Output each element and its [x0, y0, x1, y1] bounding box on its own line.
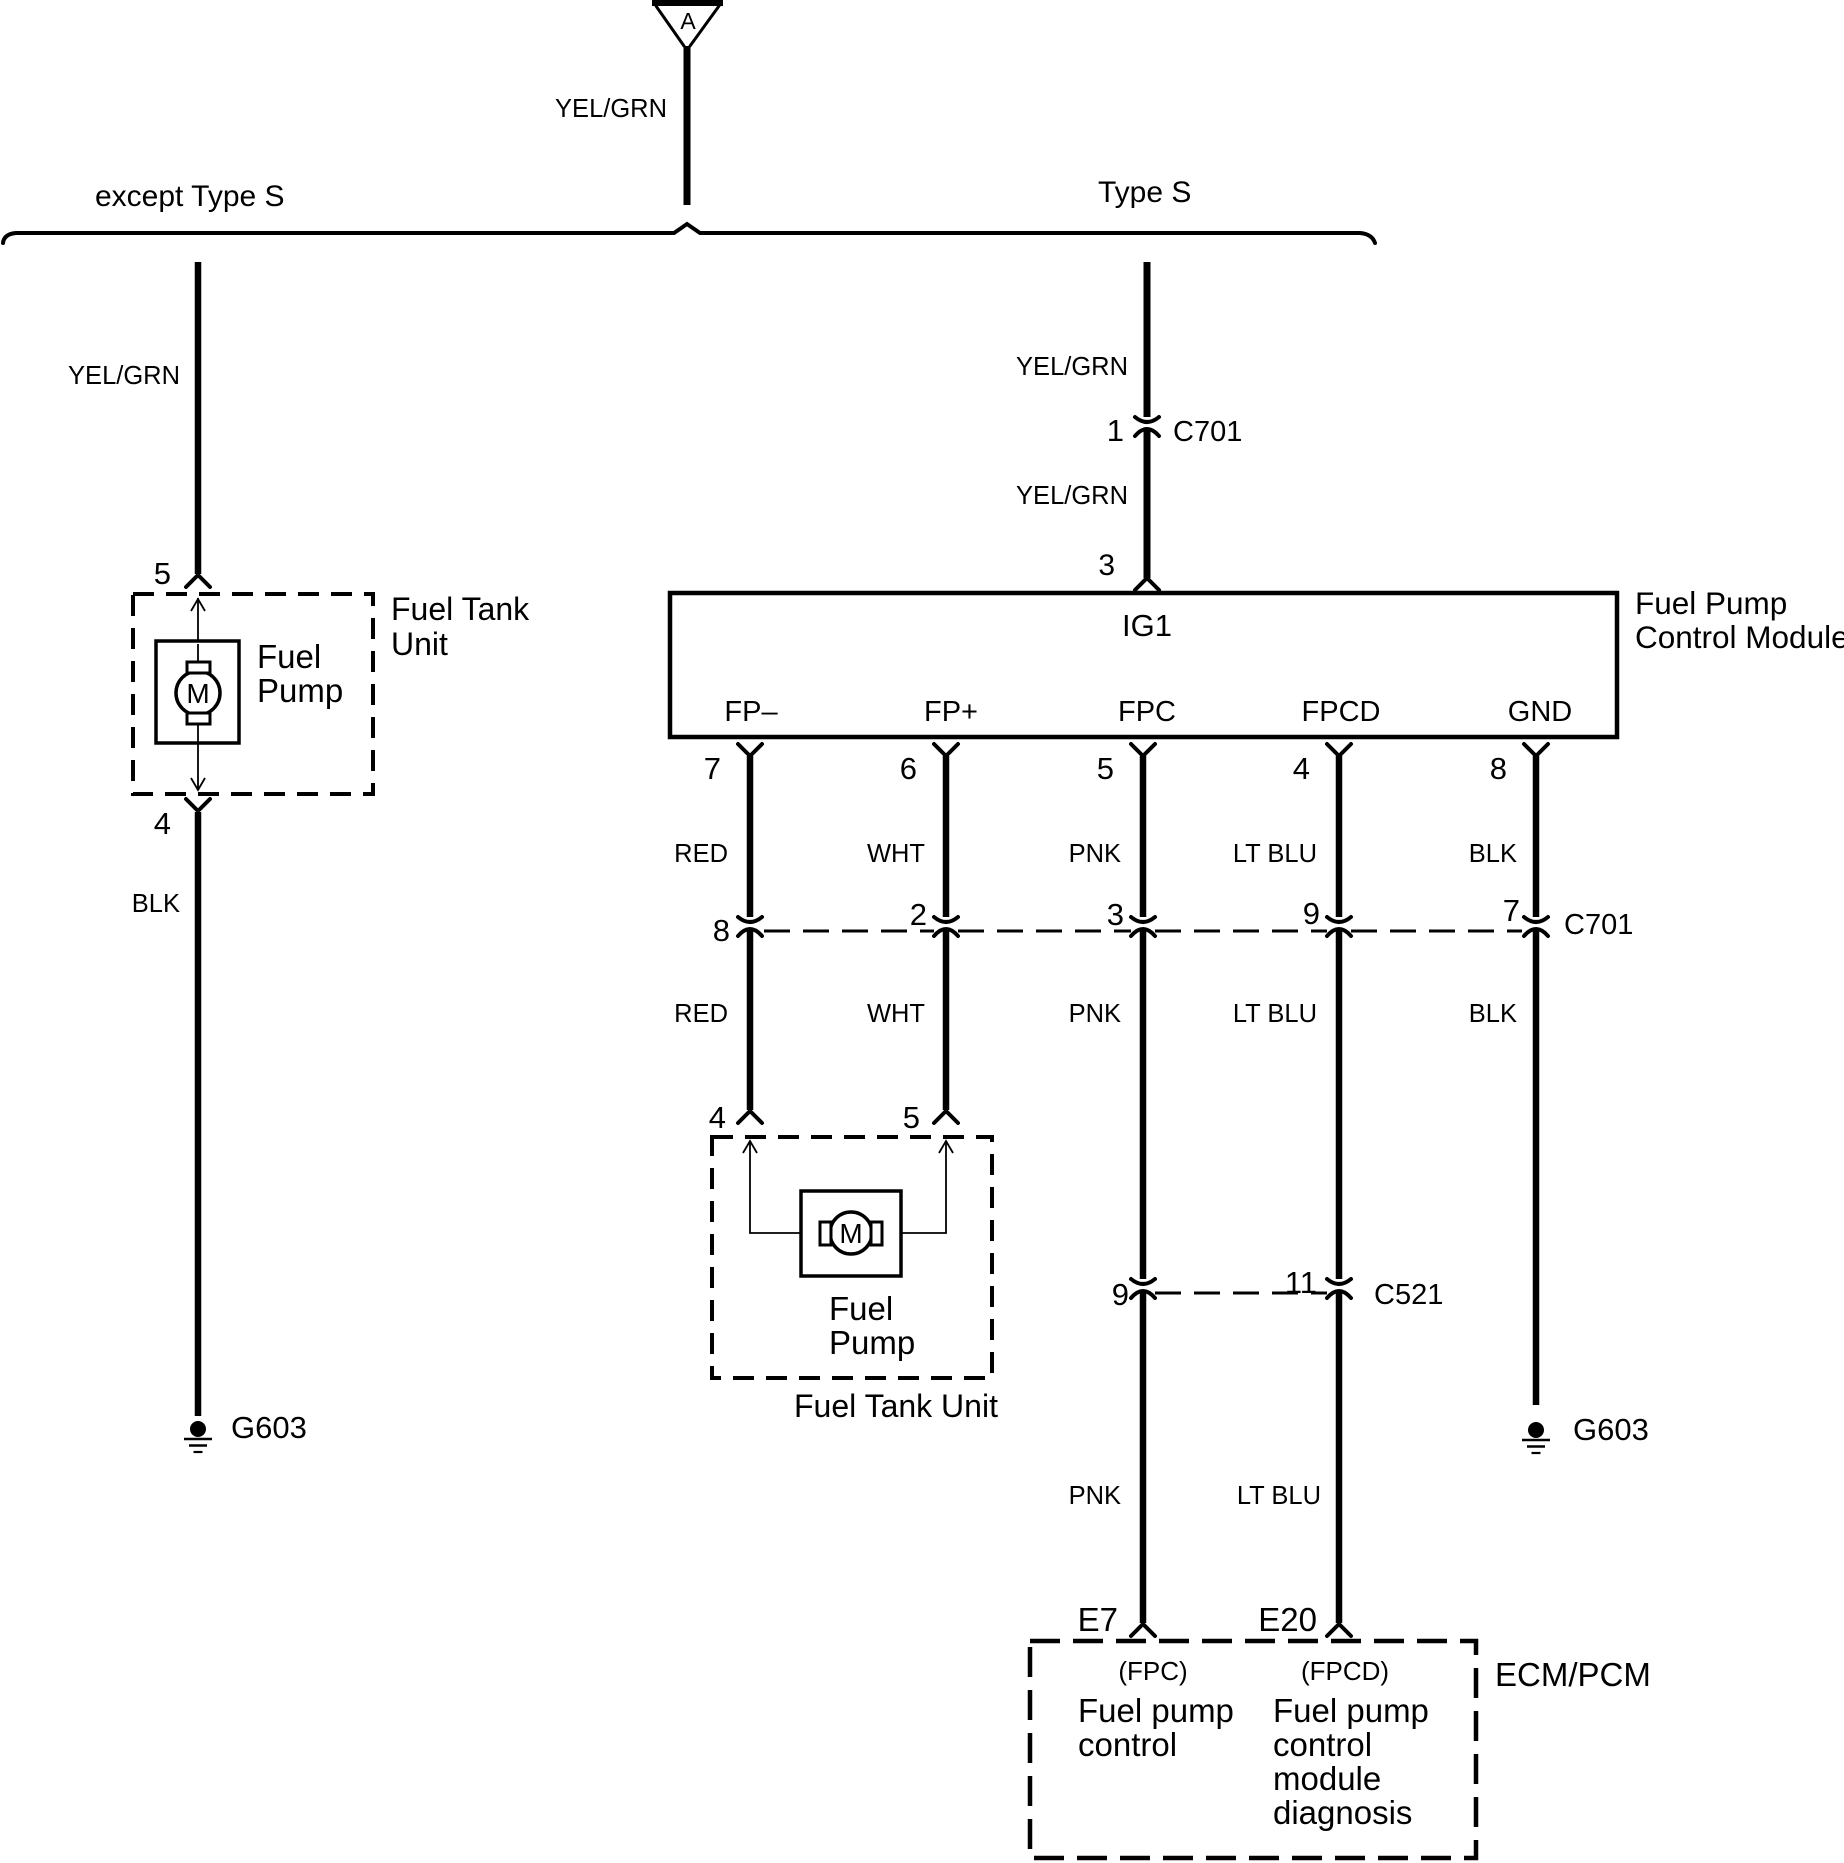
terminal: FPCM pin 3 (IG1): [1135, 579, 1159, 590]
connector A (triangle, page link): [652, 0, 723, 6]
svg-text:G603: G603: [231, 1410, 307, 1445]
svg-text:Pump: Pump: [829, 1324, 915, 1361]
svg-text:5: 5: [1097, 751, 1114, 786]
motor M (left): [176, 671, 220, 715]
svg-text:Unit: Unit: [391, 626, 448, 662]
svg-text:LT BLU: LT BLU: [1233, 1000, 1317, 1028]
svg-text:5: 5: [154, 556, 171, 591]
svg-text:YEL/GRN: YEL/GRN: [555, 95, 667, 123]
brace splitting to except Type S / Type S branches: [3, 224, 1375, 243]
svg-text:E7: E7: [1078, 1601, 1118, 1638]
svg-text:3: 3: [1107, 897, 1124, 932]
svg-text:3: 3: [1098, 549, 1115, 582]
terminal: fuel tank unit pin 4 (male): [186, 799, 210, 810]
svg-text:PNK: PNK: [1069, 1000, 1121, 1028]
connector C701 dashed line: [764, 930, 934, 933]
wire WHT (FP+) lower: [943, 929, 950, 1110]
svg-text:C701: C701: [1564, 909, 1633, 941]
svg-text:Pump: Pump: [257, 672, 343, 709]
terminal: FPCM pin 5 (FPC): [1131, 744, 1155, 755]
svg-text:1: 1: [1107, 413, 1124, 448]
wire PNK (FPC) to ECM: [1140, 1291, 1147, 1623]
svg-text:WHT: WHT: [867, 1000, 925, 1028]
connector C701 pin 2 (FP+): [934, 917, 958, 922]
svg-text:Fuel pump: Fuel pump: [1078, 1692, 1234, 1729]
svg-text:YEL/GRN: YEL/GRN: [1016, 353, 1128, 381]
Fuel Pump Control Module box: [670, 593, 1617, 737]
wire YEL/GRN from A: [684, 46, 691, 205]
svg-text:Fuel Pump: Fuel Pump: [1635, 585, 1787, 621]
terminal: FPCM pin 7 (FP-): [738, 744, 762, 755]
svg-text:7: 7: [1503, 893, 1520, 928]
svg-text:9: 9: [1303, 896, 1320, 931]
svg-text:C701: C701: [1173, 416, 1242, 448]
svg-text:6: 6: [900, 751, 917, 786]
svg-text:Fuel: Fuel: [257, 638, 321, 675]
svg-text:Fuel pump: Fuel pump: [1273, 1692, 1429, 1729]
connector C701 pin 7 (GND): [1524, 917, 1548, 922]
svg-text:FP–: FP–: [724, 696, 778, 728]
wire YEL/GRN (Type S, below C701): [1144, 429, 1151, 578]
internal wires of fuel pump (Type S): [743, 1141, 757, 1153]
wire LT BLU (FPCD) lower: [1336, 929, 1343, 1279]
connector C521 dashed line: [1155, 1292, 1327, 1295]
svg-text:Type S: Type S: [1098, 176, 1191, 209]
fuel pump box (Type S): [801, 1191, 901, 1276]
svg-text:PNK: PNK: [1069, 840, 1121, 868]
wire PNK (FPC) lower: [1140, 929, 1147, 1279]
svg-text:11: 11: [1285, 1265, 1317, 1300]
svg-text:FP+: FP+: [924, 696, 978, 728]
terminal: FPCM pin 4 (FPCD): [1327, 744, 1351, 755]
svg-text:LT BLU: LT BLU: [1237, 1482, 1321, 1510]
svg-text:4: 4: [154, 806, 171, 841]
wire BLK (left, to ground): [195, 812, 202, 1416]
svg-text:GND: GND: [1508, 696, 1572, 728]
wire BLK (GND) lower: [1533, 929, 1540, 1405]
wire YEL/GRN (except Type S): [195, 262, 202, 574]
motor M (Type S): [830, 1212, 872, 1254]
svg-text:RED: RED: [674, 840, 728, 868]
svg-text:(FPC): (FPC): [1118, 1656, 1187, 1686]
connector C701 pin 8 (FP-): [738, 917, 762, 922]
internal wire of fuel pump (left): [197, 598, 199, 666]
ground G603 (left): [190, 1421, 206, 1437]
svg-text:BLK: BLK: [1469, 1000, 1517, 1028]
svg-text:except Type S: except Type S: [95, 180, 285, 213]
svg-text:7: 7: [704, 751, 721, 786]
ECM/PCM dashed box: [1030, 1641, 1476, 1858]
svg-text:diagnosis: diagnosis: [1273, 1794, 1412, 1831]
svg-text:M: M: [839, 1218, 862, 1249]
fuel pump box (left): [156, 641, 239, 743]
terminal: ECM pin E7: [1131, 1625, 1155, 1636]
terminal: FPCM pin 6 (FP+): [934, 744, 958, 755]
svg-text:5: 5: [903, 1100, 920, 1135]
wire WHT (FP+) upper: [943, 756, 950, 917]
connector C701 pin 3 (FPC): [1131, 917, 1155, 922]
svg-text:YEL/GRN: YEL/GRN: [1016, 482, 1128, 510]
connector C521 pin 9 (FPC): [1131, 1279, 1155, 1284]
svg-text:Fuel: Fuel: [829, 1290, 893, 1327]
wire RED (FP-) lower: [747, 929, 754, 1110]
connector C701 pin 1 (inline): [1135, 417, 1159, 422]
svg-text:YEL/GRN: YEL/GRN: [68, 362, 180, 390]
terminal: fuel tank pin 4 (Type S): [738, 1112, 762, 1123]
internal wire inside pump box (left): [197, 644, 199, 742]
svg-text:PNK: PNK: [1069, 1482, 1121, 1510]
svg-text:4: 4: [1293, 751, 1310, 786]
svg-text:LT BLU: LT BLU: [1233, 840, 1317, 868]
ground G603 (right): [1528, 1422, 1544, 1438]
svg-text:8: 8: [1490, 751, 1507, 786]
svg-text:control: control: [1273, 1726, 1372, 1763]
connector C701 pin 9 (FPCD): [1327, 917, 1351, 922]
svg-text:(FPCD): (FPCD): [1301, 1656, 1389, 1686]
wire LT BLU (FPCD) upper: [1336, 756, 1343, 917]
fuel tank unit (except Type S) dashed box: [133, 594, 373, 794]
connector C521 pin 11 (FPCD): [1327, 1279, 1351, 1284]
fuel tank unit (Type S) dashed box: [712, 1137, 992, 1378]
svg-text:Control Module: Control Module: [1635, 619, 1844, 655]
svg-text:A: A: [680, 8, 696, 34]
terminal: fuel tank unit pin 5: [186, 576, 210, 587]
wire LT BLU (FPCD) to ECM: [1336, 1291, 1343, 1623]
svg-text:Fuel Tank: Fuel Tank: [391, 591, 530, 627]
svg-text:control: control: [1078, 1726, 1177, 1763]
svg-text:ECM/PCM: ECM/PCM: [1495, 1656, 1651, 1693]
svg-text:G603: G603: [1573, 1412, 1649, 1447]
svg-text:M: M: [186, 678, 209, 709]
wire YEL/GRN (Type S, above C701): [1144, 262, 1151, 417]
svg-text:module: module: [1273, 1760, 1381, 1797]
svg-text:9: 9: [1112, 1277, 1129, 1312]
svg-text:RED: RED: [674, 1000, 728, 1028]
terminal: FPCM pin 8 (GND): [1524, 744, 1548, 755]
svg-text:Fuel Tank Unit: Fuel Tank Unit: [794, 1388, 998, 1424]
svg-text:8: 8: [713, 913, 730, 948]
svg-text:E20: E20: [1258, 1601, 1317, 1638]
svg-text:WHT: WHT: [867, 840, 925, 868]
svg-text:C521: C521: [1374, 1279, 1443, 1311]
svg-text:BLK: BLK: [132, 890, 180, 918]
svg-text:FPC: FPC: [1118, 696, 1176, 728]
svg-text:IG1: IG1: [1122, 608, 1172, 643]
svg-text:FPCD: FPCD: [1302, 696, 1381, 728]
svg-text:4: 4: [709, 1100, 726, 1135]
wire RED (FP-) upper: [747, 756, 754, 917]
svg-text:BLK: BLK: [1469, 840, 1517, 868]
wire PNK (FPC) upper: [1140, 756, 1147, 917]
terminal: ECM pin E20: [1327, 1625, 1351, 1636]
terminal: fuel tank pin 5 (Type S): [934, 1112, 958, 1123]
svg-text:2: 2: [910, 897, 927, 932]
wire BLK (GND) upper: [1533, 756, 1540, 917]
